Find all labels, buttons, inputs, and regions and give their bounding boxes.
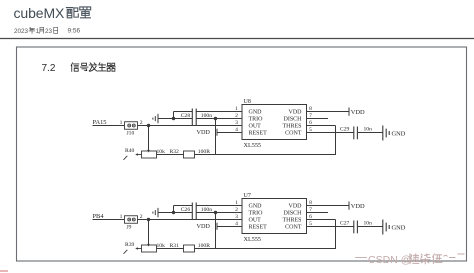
wire VDD to IC pin 4 [217, 226, 242, 228]
op IC U8 XL555 box [242, 105, 307, 140]
U8 right pin numbers 8-5 [309, 106, 312, 133]
wire IC pin 5 to C27 [307, 226, 354, 228]
wire C28 branch to IC pin 1 [174, 111, 193, 113]
svg-text:23: 23 [45, 28, 53, 35]
date glyph 月 [39, 27, 44, 33]
svg-text:CONT: CONT [285, 131, 302, 137]
U8 right pin names [282, 110, 302, 137]
U8 left pin names [249, 110, 268, 137]
section outer border box [17, 47, 467, 261]
resistor R32 [184, 151, 195, 158]
junction node ground tap [172, 211, 175, 214]
U7 right pin names [282, 204, 302, 231]
wire junction up to C28 branch [173, 112, 175, 119]
wire stub IC pin 7 DISCH [307, 118, 329, 120]
svg-text:7.2: 7.2 [42, 63, 56, 74]
wire R39 to R31 [157, 248, 184, 250]
wire IC pin 8 to VDD [307, 111, 350, 113]
svg-text:VDD: VDD [197, 223, 211, 230]
svg-text:2: 2 [235, 207, 238, 213]
power symbol VDD right [348, 108, 350, 116]
wire TRIO node down to feedback wire [215, 213, 217, 249]
svg-text:U8: U8 [244, 99, 251, 105]
svg-text:3: 3 [235, 214, 238, 220]
svg-text:10k: 10k [157, 243, 166, 249]
svg-text:RESET: RESET [249, 225, 268, 231]
svg-text:TRIO: TRIO [249, 117, 264, 123]
watermark dash [355, 257, 367, 259]
svg-text:R40: R40 [125, 148, 135, 154]
svg-text:RESET: RESET [249, 131, 268, 137]
svg-text:VDD: VDD [351, 109, 365, 116]
connector J9 [125, 216, 138, 224]
svg-text:J10: J10 [127, 131, 135, 137]
wire C27 to ground [357, 226, 382, 228]
svg-text:R31: R31 [170, 243, 180, 249]
capacitor C26 [192, 203, 196, 221]
svg-text:VDD: VDD [289, 110, 303, 116]
svg-text:VDD: VDD [289, 204, 303, 210]
svg-text:cubeMX: cubeMX [14, 5, 66, 21]
svg-text:OUT: OUT [249, 218, 262, 224]
title glyph 配 [66, 8, 78, 18]
svg-text:CSDN @: CSDN @ [368, 254, 411, 266]
svg-text:VDD: VDD [197, 129, 211, 136]
capacitor C28 [192, 109, 196, 127]
wire IC pin 5 to C29 [307, 132, 354, 134]
U7 left pin numbers 1-4 [235, 200, 238, 227]
power symbol VDD right [348, 202, 350, 210]
svg-text:3: 3 [235, 120, 238, 126]
svg-text:100n: 100n [201, 113, 212, 119]
svg-text:OUT: OUT [249, 124, 262, 130]
wire corner up to IC pin 6 [335, 220, 337, 250]
capacitor C27 [354, 221, 358, 234]
svg-text:100R: 100R [198, 243, 210, 249]
wire R32 to THRES corner [195, 154, 336, 156]
svg-text:U7: U7 [244, 193, 251, 199]
svg-text:THRES: THRES [282, 218, 301, 224]
wire TRIO node down to feedback wire [215, 119, 217, 155]
wire R40 to R32 [157, 154, 184, 156]
svg-text:10n: 10n [364, 221, 373, 227]
watermark glyph 陆 [410, 254, 419, 264]
wire junction up to C26 branch [173, 206, 175, 213]
svg-text:DISCH: DISCH [283, 211, 302, 217]
op IC U7 XL555 box [242, 199, 307, 234]
svg-text:9:56: 9:56 [68, 28, 81, 35]
svg-text:2: 2 [235, 113, 238, 119]
wire R31 to THRES corner [195, 248, 336, 250]
trimmer R40 [124, 151, 157, 160]
heading glyph 号 [80, 63, 88, 70]
svg-text:1: 1 [36, 28, 40, 35]
title glyph 置 [80, 7, 91, 18]
svg-text:1: 1 [120, 214, 123, 220]
svg-text:THRES: THRES [282, 124, 301, 130]
junction node ground tap [172, 117, 175, 120]
junction node TRIO tap [214, 211, 217, 214]
watermark glyph 柒 [421, 254, 430, 264]
svg-text:10n: 10n [364, 127, 373, 133]
ground symbol right [383, 126, 389, 141]
watermark glyph 伍 [433, 254, 442, 264]
wire IC pin 6 to feedback corner [307, 125, 336, 127]
svg-text:GND: GND [392, 224, 406, 231]
svg-text:4: 4 [235, 221, 238, 227]
watermark trailing marks [444, 254, 465, 258]
junction node TRIO tap [214, 117, 217, 120]
wire J10 to IC pin 3 [138, 125, 243, 127]
junction node at J10 pin 2 [147, 124, 150, 127]
svg-text:10k: 10k [157, 149, 166, 155]
wire junction down to R39 wiper [148, 220, 150, 245]
svg-text:1: 1 [235, 106, 238, 112]
watermark bottom-left pink fragment [0, 270, 8, 272]
ground symbol right [383, 220, 389, 235]
heading glyph 生 [98, 63, 106, 71]
U7 right pin numbers 8-5 [309, 200, 312, 227]
ground symbol left [153, 208, 158, 217]
horizontal rule under header [0, 38, 474, 40]
trimmer R39 [124, 245, 157, 254]
resistor R31 [184, 245, 195, 252]
wire ground to C28 / TRIO [158, 118, 192, 120]
date glyph 日 [54, 27, 58, 33]
svg-text:4: 4 [235, 127, 238, 133]
svg-text:GND: GND [392, 130, 406, 137]
svg-text:C28: C28 [181, 113, 191, 119]
wire PB4 to J9 [93, 219, 125, 221]
svg-text:DISCH: DISCH [283, 117, 302, 123]
svg-text:R32: R32 [170, 149, 180, 155]
U8 left pin numbers 1-4 [235, 106, 238, 133]
svg-text:R39: R39 [125, 242, 135, 248]
svg-text:XL555: XL555 [244, 236, 262, 243]
wire J9 to IC pin 3 [138, 219, 243, 221]
svg-text:VDD: VDD [351, 203, 365, 210]
svg-text:C26: C26 [181, 207, 191, 213]
wire junction down to R40 wiper [148, 126, 150, 151]
wire C29 to ground [357, 132, 382, 134]
capacitor C29 [354, 127, 358, 140]
wire PA15 to J10 [93, 125, 125, 127]
svg-text:GND: GND [249, 110, 263, 116]
wire stub IC pin 7 DISCH [307, 212, 329, 214]
svg-text:100n: 100n [201, 207, 212, 213]
heading glyph 器 [107, 63, 115, 71]
wire IC pin 8 to VDD [307, 205, 350, 207]
svg-text:CONT: CONT [285, 225, 302, 231]
wire VDD to IC pin 4 [217, 132, 242, 134]
svg-text:J9: J9 [127, 225, 132, 231]
wire C26 branch to IC pin 1 [174, 205, 193, 207]
svg-text:C27: C27 [340, 221, 350, 227]
connector J10 [125, 122, 138, 130]
heading glyph 信 [71, 63, 79, 71]
svg-text:1: 1 [235, 200, 238, 206]
svg-text:1: 1 [120, 120, 123, 126]
date glyph 年 [29, 27, 35, 33]
svg-text:2023: 2023 [14, 28, 29, 35]
ground symbol left [153, 114, 158, 123]
wire ground to C26 / TRIO [158, 212, 192, 214]
heading glyph 发 [89, 63, 97, 71]
svg-text:TRIO: TRIO [249, 211, 264, 217]
U7 left pin names [249, 204, 268, 231]
svg-text:XL555: XL555 [244, 142, 262, 149]
junction node at J9 pin 2 [147, 218, 150, 221]
svg-text:100R: 100R [198, 149, 210, 155]
svg-text:GND: GND [249, 204, 263, 210]
svg-text:C29: C29 [340, 127, 350, 133]
wire IC pin 6 to feedback corner [307, 219, 336, 221]
wire corner up to IC pin 6 [335, 126, 337, 156]
